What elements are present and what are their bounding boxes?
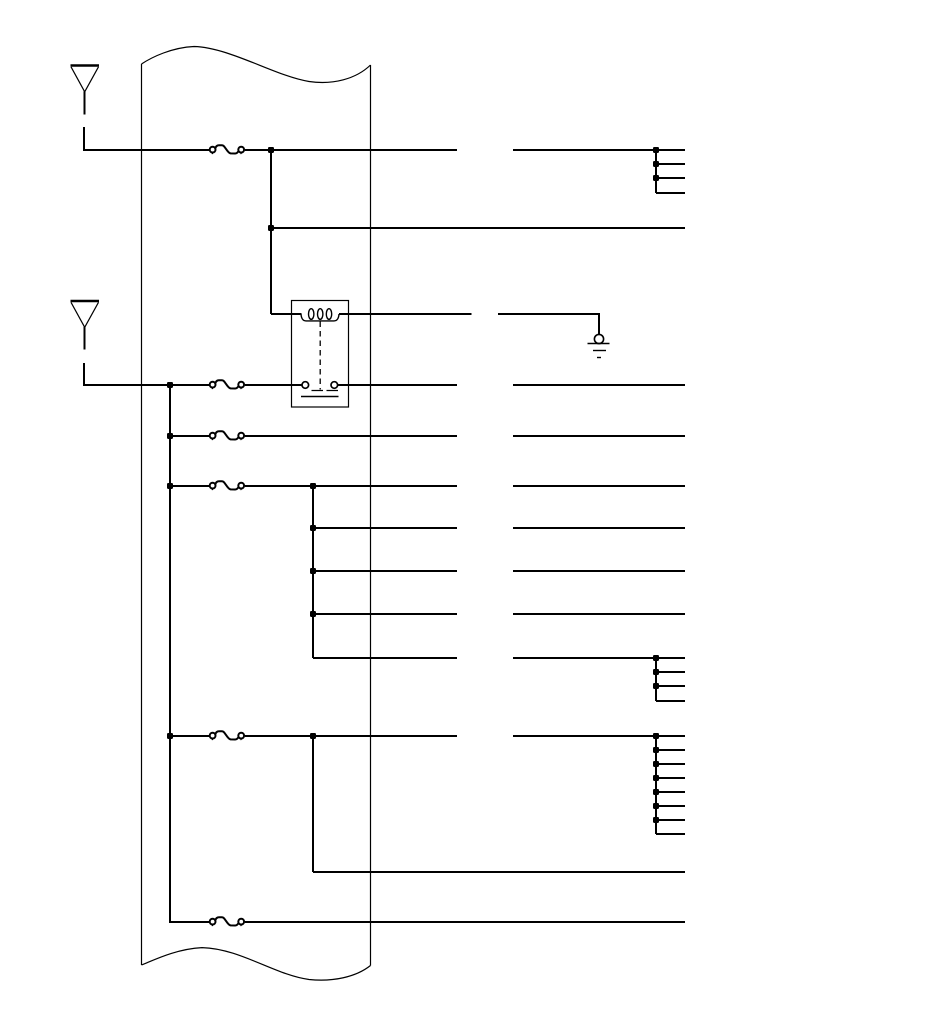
relay K1 coil bbox=[301, 309, 339, 321]
cluster2 stub 4 bbox=[656, 791, 685, 793]
junction row6 x313 bbox=[310, 483, 316, 489]
cluster2 vertical bbox=[655, 736, 657, 834]
cable harness outline left edge bbox=[141, 64, 143, 965]
wire row4 antenna AT2 lead-in bbox=[84, 363, 209, 385]
wire row9 middle segment bbox=[313, 613, 457, 615]
relay K1 contact bar bbox=[301, 396, 339, 398]
junction row1 x271 bbox=[268, 147, 274, 153]
relay K1 case bbox=[292, 301, 349, 408]
wire vertical x271 row1 to coil row bbox=[270, 150, 272, 314]
cluster1 stub 2 dot bbox=[653, 683, 659, 689]
wire row2 bbox=[271, 227, 685, 229]
ground symbol bbox=[588, 334, 610, 357]
cluster2 stub 4 dot bbox=[653, 789, 659, 795]
wire row5 right segment bbox=[513, 435, 685, 437]
cluster1 stub 1 dot bbox=[653, 669, 659, 675]
cable harness outline right edge bbox=[370, 65, 372, 966]
relay K1 actuator dashed link bbox=[319, 322, 321, 390]
relay K1 contact terminal left bbox=[302, 382, 309, 389]
connector C3 on row5 bbox=[210, 431, 244, 440]
cluster2 stub 2 dot bbox=[653, 761, 659, 767]
wire coil row to gap bbox=[339, 313, 472, 315]
antenna AT1 bbox=[71, 66, 100, 115]
cluster1 stub 1 bbox=[656, 671, 685, 673]
relay K1 contact dashed bar bbox=[312, 390, 339, 392]
wire row7 right segment bbox=[513, 527, 685, 529]
wire row4 from relay contact to gap bbox=[338, 384, 457, 386]
wire row1 middle segment bbox=[245, 149, 457, 151]
top cluster stub 2 bbox=[656, 177, 685, 179]
wire row10 middle segment corner bbox=[313, 657, 457, 659]
cluster1 stub 2 bbox=[656, 685, 685, 687]
top cluster vertical bbox=[655, 150, 657, 193]
wire row8 right segment bbox=[513, 570, 685, 572]
junction row2 x271 bbox=[268, 225, 274, 231]
junction bus row6 bbox=[167, 483, 173, 489]
wire row5 left stub bbox=[170, 435, 209, 437]
connector C1 on row1 bbox=[210, 145, 244, 154]
wire row7 middle segment bbox=[313, 527, 457, 529]
relay K1 contact terminal right bbox=[331, 382, 338, 389]
connector C6 on row13 bbox=[210, 917, 244, 926]
junction row7 bbox=[310, 525, 316, 531]
antenna AT2 bbox=[71, 301, 100, 350]
wire row12 bbox=[313, 871, 685, 873]
wire row9 right segment bbox=[513, 613, 685, 615]
top cluster stub 1 bbox=[656, 163, 685, 165]
wire row1 right segment bbox=[513, 149, 685, 151]
wire coil row left bbox=[271, 313, 302, 315]
top cluster stub 2 dot bbox=[653, 175, 659, 181]
cluster1 stub 3 corner bbox=[656, 700, 685, 702]
cluster2 stub 6 bbox=[656, 819, 685, 821]
junction bus row11 bbox=[167, 733, 173, 739]
cluster2 stub 1 dot bbox=[653, 747, 659, 753]
wire row1 antenna AT1 lead-in bbox=[84, 127, 209, 150]
wire row11 middle segment bbox=[245, 735, 457, 737]
cable harness outline bottom break wave bbox=[142, 948, 371, 981]
wire row11 right segment bbox=[513, 735, 685, 737]
top cluster stub 3 corner bbox=[656, 192, 685, 194]
wire left bus vertical bbox=[170, 385, 209, 922]
wire row13 bbox=[245, 921, 685, 923]
wire row4 middle segment to relay contact bbox=[245, 384, 302, 386]
cluster2 stub 6 dot bbox=[653, 817, 659, 823]
cluster2 stub 3 dot bbox=[653, 775, 659, 781]
connector C2 on row4 bbox=[210, 380, 244, 389]
wire vertical x313 rows6-10 bbox=[312, 486, 314, 658]
cluster2 junction dot bbox=[653, 733, 659, 739]
cluster1 junction dot bbox=[653, 655, 659, 661]
wire row6 middle segment bbox=[245, 485, 457, 487]
wire row8 middle segment bbox=[313, 570, 457, 572]
wire row6 left stub bbox=[170, 485, 209, 487]
junction row11 x313 bbox=[310, 733, 316, 739]
junction bus row4 bbox=[167, 382, 173, 388]
cluster2 stub 1 bbox=[656, 749, 685, 751]
junction row8 bbox=[310, 568, 316, 574]
wire row10 right segment bbox=[513, 657, 685, 659]
wire vertical x313 row11 to row12 bbox=[312, 736, 314, 872]
wire row4 right segment bbox=[513, 384, 685, 386]
cluster2 stub 2 bbox=[656, 763, 685, 765]
connector C5 on row11 bbox=[210, 731, 244, 740]
cluster2 stub 3 bbox=[656, 777, 685, 779]
wire row11 left stub bbox=[170, 735, 209, 737]
top cluster stub 1 dot bbox=[653, 161, 659, 167]
wire row6 right segment bbox=[513, 485, 685, 487]
cluster2 stub 7 corner bbox=[656, 833, 685, 835]
cluster2 stub 5 dot bbox=[653, 803, 659, 809]
junction row9 bbox=[310, 611, 316, 617]
connector C4 on row6 bbox=[210, 481, 244, 490]
cluster2 stub 5 bbox=[656, 805, 685, 807]
cable harness outline top break wave bbox=[142, 47, 371, 83]
wire row5 middle segment bbox=[245, 435, 457, 437]
junction bus row5 bbox=[167, 433, 173, 439]
top connector cluster junction dot bbox=[653, 147, 659, 153]
cluster1 vertical bbox=[655, 658, 657, 701]
wire coil row right segment to ground bbox=[498, 314, 599, 335]
